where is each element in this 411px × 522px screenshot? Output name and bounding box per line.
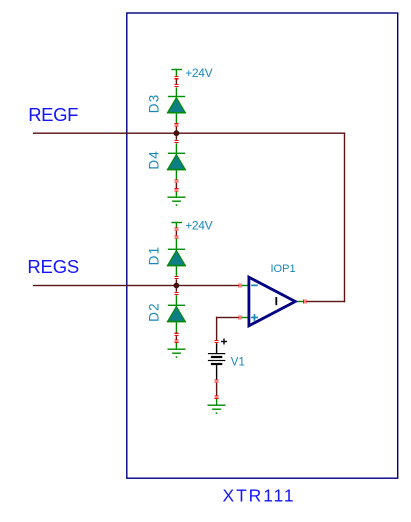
pin wire op-amp plus (242, 317, 250, 318)
pin mark op-amp output (303, 300, 306, 304)
svg-text:REGS: REGS (27, 256, 79, 277)
wire op-amp output horizontal (307, 301, 346, 302)
pin wire op-amp minus (242, 285, 250, 286)
wire segment D1 to node REGS (176, 279, 177, 285)
pin mark battery bottom b (215, 396, 219, 399)
wire segment node REGS to D2 (176, 286, 177, 292)
battery plate long 1 (208, 353, 225, 354)
battery plate short 1 (211, 356, 222, 358)
pin mark D4 bottom a (174, 180, 178, 183)
svg-text:+24V: +24V (185, 66, 212, 80)
pin mark battery top (215, 340, 219, 343)
pin mark D1 top a (174, 228, 178, 231)
pin mark D2 bottom b (174, 340, 178, 343)
wire segment D3 to node REGF (176, 127, 177, 134)
svg-text:D2: D2 (147, 302, 162, 322)
pin mark D2 bottom a (174, 333, 178, 336)
power +24V symbol (top) (171, 69, 182, 70)
svg-text:IOP1: IOP1 (271, 263, 296, 275)
wire feedback vertical right (344, 133, 345, 303)
pin mark D4 top (174, 140, 178, 143)
wire segment battery to ground (216, 383, 217, 396)
wire segment above D3 (176, 80, 177, 85)
wire REGF horizontal (33, 133, 345, 134)
battery bottom pin (216, 365, 217, 379)
subcircuit box XTR111 (127, 13, 398, 478)
pin mark op-amp minus input (238, 284, 241, 288)
pin mark battery bottom a (215, 379, 219, 382)
svg-text:D3: D3 (147, 94, 162, 114)
svg-text:D4: D4 (147, 150, 162, 170)
pin mark D4 bottom b (174, 188, 178, 191)
wire REGS horizontal (33, 285, 238, 286)
op-amp U IOP1 (242, 263, 304, 326)
svg-text:REGF: REGF (28, 104, 78, 125)
battery V1 (208, 339, 245, 380)
pin mark D3 bottom (174, 123, 178, 126)
svg-text:+24V: +24V (185, 219, 212, 233)
wire op-amp plus input horizontal (216, 317, 239, 318)
diode D2 (176, 295, 177, 307)
battery top pin (216, 343, 217, 353)
pin mark D3 top a (174, 76, 178, 79)
op-amp minus sign (251, 285, 258, 287)
pin wire op-amp output (295, 301, 303, 302)
wire segment above D1 (176, 231, 177, 235)
ground below battery (216, 399, 217, 405)
diode D1 (176, 239, 177, 252)
wire battery plus vertical (216, 317, 217, 340)
svg-text:V1: V1 (231, 356, 245, 368)
battery plus sign (221, 341, 227, 342)
pin mark D2 top (174, 292, 178, 295)
power +24V symbol (bottom) (171, 222, 182, 223)
pin mark op-amp plus input (238, 316, 241, 320)
ground below D2 (176, 343, 177, 349)
ground below D4 (176, 192, 177, 197)
node junction REGF (174, 130, 180, 136)
node junction REGS (174, 283, 180, 289)
op-amp triangle (249, 277, 295, 326)
diode D4 (176, 143, 177, 154)
battery plate short 2 (211, 363, 222, 365)
diode D3 (176, 87, 177, 98)
pin mark D1 bottom (174, 276, 178, 279)
svg-text:D1: D1 (147, 246, 162, 266)
svg-text:XTR111: XTR111 (223, 486, 296, 506)
battery plate long 2 (208, 360, 225, 361)
wire segment below D4 (176, 183, 177, 188)
pin mark D3 top b (174, 84, 178, 87)
op-amp current source bar (275, 297, 277, 305)
pin mark D1 top b (174, 235, 178, 238)
wire segment below D2 (176, 336, 177, 340)
op-amp plus sign (251, 317, 258, 319)
wire segment node REGF to D4 (176, 133, 177, 140)
